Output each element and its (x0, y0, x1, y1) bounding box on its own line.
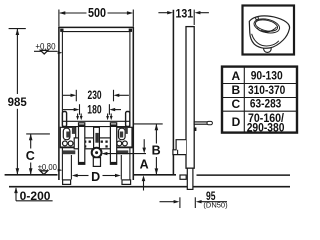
svg-text:C: C (231, 97, 240, 111)
spec table (222, 67, 297, 133)
foot right (122, 180, 131, 185)
corner bolt right (129, 29, 132, 32)
svg-text:500: 500 (88, 6, 106, 20)
side view drain leg (187, 168, 193, 189)
frame top bar (58, 26, 134, 28)
svg-text:(DN50): (DN50) (203, 201, 228, 210)
bidet body silhouette (249, 16, 289, 48)
dimension 230 (63, 94, 72, 96)
svg-text:90-130: 90-130 (251, 69, 283, 83)
stud pins left (77, 114, 79, 117)
dimension 131 (193, 10, 195, 25)
ear tab left (62, 112, 66, 127)
bracket block left (60, 127, 75, 147)
svg-text:B: B (152, 144, 161, 158)
drain lower block (93, 158, 100, 167)
floor line middle (134, 174, 176, 176)
dimension 95 (179, 197, 181, 208)
drain holder (94, 127, 100, 148)
bidet bowl arc 2 (261, 29, 274, 32)
strut right (110, 123, 116, 165)
svg-text:B: B (231, 83, 240, 97)
dimension 985 (9, 28, 26, 30)
svg-text:290-380: 290-380 (247, 120, 285, 134)
ear tab right (126, 112, 130, 127)
bracket block right (117, 127, 132, 147)
mounting plate (74, 138, 115, 149)
svg-text:180: 180 (87, 104, 101, 116)
frame left rail (58, 27, 60, 180)
svg-text:A: A (140, 158, 149, 172)
svg-text:A: A (231, 69, 240, 83)
dimension A (143, 139, 145, 149)
svg-text:C: C (26, 149, 35, 163)
strut left (79, 123, 85, 165)
side view wall bracket (173, 140, 186, 155)
leader line to A (104, 153, 146, 155)
bidet opening (254, 18, 278, 33)
bidet outlet stub (263, 48, 271, 53)
side view rail bar (186, 27, 194, 169)
bidet rim inner edge (253, 17, 281, 36)
dimension 500 extension lines (58, 10, 60, 27)
svg-text:310-370: 310-370 (248, 83, 286, 97)
side view foot (180, 175, 186, 179)
dimension 180 (63, 109, 75, 111)
foot left (63, 180, 71, 185)
side view clamp nub (194, 127, 196, 131)
floor line left (5, 174, 58, 176)
corner bolt left (60, 29, 63, 32)
bidet bowl arc (257, 27, 277, 32)
dimension 0-200 (15, 188, 17, 201)
crossbar (63, 120, 130, 122)
lower clamp right (116, 150, 128, 154)
floor line right (197, 174, 291, 176)
svg-text:63-283: 63-283 (250, 97, 282, 111)
side view wall line (172, 10, 174, 175)
bidet faucet hole (256, 17, 259, 20)
side view water pipe (194, 122, 207, 124)
dimension B (134, 123, 163, 125)
svg-text:0-200: 0-200 (20, 189, 51, 203)
svg-text:D: D (232, 115, 241, 129)
lower clamp left (63, 150, 75, 154)
dimension C (26, 133, 50, 135)
slab line (9, 186, 290, 188)
bidet skirt line (252, 34, 279, 46)
svg-text:D: D (91, 170, 100, 184)
stud pins right (107, 114, 109, 117)
dimension 500 line (60, 12, 87, 14)
bidet icon box (243, 6, 295, 55)
svg-text:131: 131 (176, 6, 194, 20)
svg-text:230: 230 (88, 90, 102, 102)
frame right rail (132, 27, 134, 180)
svg-text:985: 985 (8, 95, 27, 109)
drain circle (92, 148, 102, 158)
dimension D (70, 155, 72, 180)
